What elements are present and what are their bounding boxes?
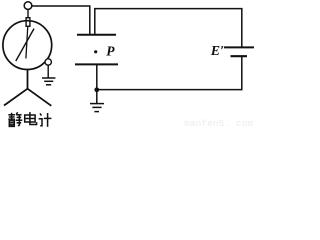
ground at circuit bottom	[90, 91, 104, 112]
electroscope case circle	[3, 21, 52, 70]
electroscope needle	[16, 29, 34, 61]
battery E' long plate	[224, 46, 254, 48]
electroscope ground lead	[47, 65, 49, 77]
junction dot	[94, 87, 99, 92]
wire: electroscope ball to capacitor top plate	[32, 6, 90, 35]
char 电	[25, 112, 37, 124]
svg-text:manfen5. com: manfen5. com	[184, 118, 253, 128]
svg-text:E′: E′	[210, 44, 224, 59]
electroscope stand	[4, 70, 51, 106]
ground at electroscope case	[42, 78, 55, 85]
electroscope stem	[27, 9, 29, 18]
electroscope ball terminal	[24, 2, 32, 10]
electroscope insulator block	[26, 18, 30, 27]
capacitor P top plate	[77, 34, 116, 36]
label 静电计	[8, 112, 51, 127]
node P marker dot	[94, 50, 97, 53]
electroscope case terminal	[45, 59, 51, 65]
char 计	[39, 113, 52, 127]
battery E' short plate	[231, 55, 248, 57]
electroscope rod	[26, 26, 28, 58]
wire: ground bus to battery bottom	[97, 57, 242, 90]
wire: capacitor bottom plate down to ground bus	[96, 65, 98, 91]
svg-text:P: P	[106, 43, 115, 58]
capacitor P bottom plate	[75, 63, 118, 65]
wire: capacitor top plate to battery top	[95, 9, 242, 47]
char 静	[8, 112, 22, 126]
